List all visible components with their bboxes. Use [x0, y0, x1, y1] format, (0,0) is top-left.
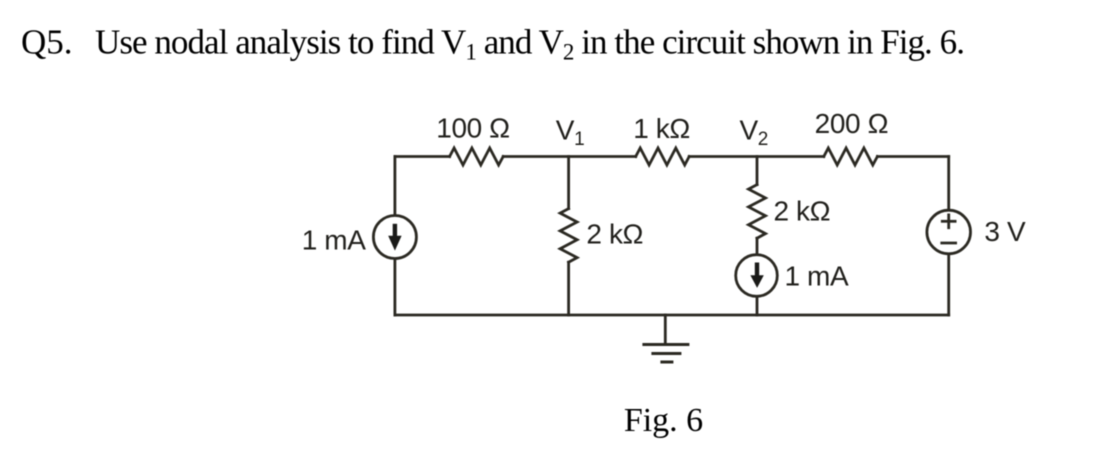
svg-text:Q5.: Q5. [21, 23, 73, 62]
svg-text:2 kΩ: 2 kΩ [586, 219, 643, 250]
svg-text:1 kΩ: 1 kΩ [633, 113, 690, 144]
svg-text:1 mA: 1 mA [302, 225, 366, 256]
svg-text:Fig. 6: Fig. 6 [624, 402, 703, 439]
svg-text:200 Ω: 200 Ω [815, 108, 888, 139]
svg-text:1 mA: 1 mA [785, 260, 849, 291]
svg-text:V1: V1 [556, 114, 584, 150]
svg-text:V2: V2 [740, 114, 768, 150]
svg-text:Use nodal analysis to find V1: Use nodal analysis to find V1 and V2 in … [95, 23, 964, 65]
svg-text:3 V: 3 V [984, 216, 1026, 247]
svg-text:100 Ω: 100 Ω [436, 113, 509, 144]
svg-text:2 kΩ: 2 kΩ [774, 196, 831, 227]
